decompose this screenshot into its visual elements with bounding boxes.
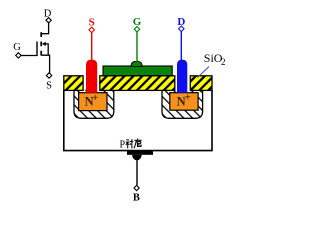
SiO2 oxide left section <box>64 76 83 91</box>
transistor Q1: gate terminal diamond <box>16 53 21 58</box>
drain wire (blue) <box>180 31 182 60</box>
SiO2 oxide middle section <box>100 76 175 91</box>
transistor Q1: source terminal diamond <box>46 73 51 78</box>
gate wire (green) <box>136 32 138 63</box>
N+ well left <box>74 90 114 119</box>
svg-text:+: + <box>92 93 98 104</box>
transistor Q1: drain wire <box>41 22 48 34</box>
body terminal diamond <box>134 185 139 190</box>
transistor Q1: gate wire <box>20 55 37 57</box>
svg-text:G: G <box>133 16 142 28</box>
transistor Q1: gate bar <box>36 42 38 57</box>
P substrate body <box>64 90 212 151</box>
svg-text:SiO: SiO <box>204 51 223 65</box>
gate electrode bar <box>103 66 172 76</box>
transistor Q1: source wire <box>41 55 49 73</box>
transistor Q1: drain channel dash <box>40 32 42 37</box>
body wire <box>136 160 138 186</box>
transistor Q1: body channel dash <box>40 42 42 47</box>
SiO2 oxide right section <box>190 76 212 91</box>
source electrode (red) <box>86 60 97 93</box>
body contact bump <box>132 155 142 161</box>
N+ contact right <box>170 93 198 111</box>
transistor Q1: body-source wire <box>45 44 48 55</box>
glyph 衬 <box>126 139 129 141</box>
gate contact bump <box>131 61 142 66</box>
svg-text:S: S <box>46 81 52 92</box>
drain electrode (blue) <box>177 60 187 93</box>
source wire (red) <box>91 32 93 60</box>
svg-text:G: G <box>13 42 21 53</box>
svg-text:S: S <box>89 16 95 28</box>
transistor Q1: body arrow <box>42 42 46 46</box>
N+ contact left <box>79 93 107 111</box>
glyph 底 <box>137 139 139 141</box>
body electrode bar <box>127 151 153 155</box>
svg-text:+: + <box>185 93 191 104</box>
drain terminal diamond <box>179 26 184 32</box>
svg-text:2: 2 <box>221 57 226 67</box>
svg-text:B: B <box>133 193 140 204</box>
svg-text:P: P <box>120 140 126 151</box>
svg-text:D: D <box>177 16 185 28</box>
source terminal diamond <box>89 27 94 33</box>
N+ well right <box>162 90 203 119</box>
SiO2 pointer line <box>198 67 210 78</box>
gate terminal diamond <box>134 26 139 32</box>
transistor Q1: drain terminal diamond <box>46 18 51 23</box>
transistor Q1: source channel dash <box>40 51 42 56</box>
